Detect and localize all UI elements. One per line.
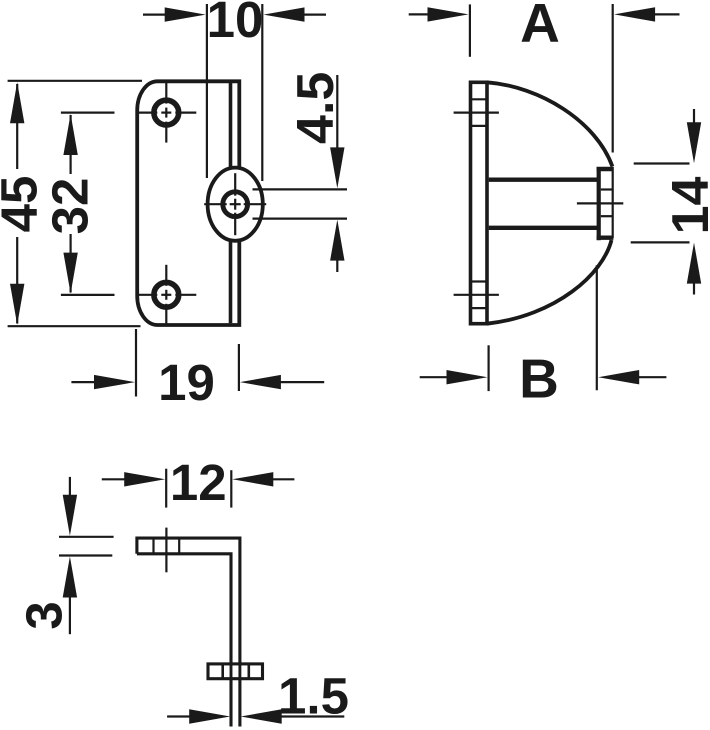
dim 3 line and arrows (69, 477, 71, 496)
dim 12 extension line left (165, 469, 167, 508)
L profile outer outline (137, 538, 240, 726)
dim 12 arrow left (102, 478, 126, 480)
svg-text:4.5: 4.5 (287, 72, 345, 144)
center hole ring (223, 192, 248, 217)
screw hole bottom ring (154, 282, 179, 307)
dim 4.5 line and arrows (336, 75, 338, 148)
side plate hole edge ticks (469, 98, 489, 100)
svg-text:14: 14 (662, 177, 710, 235)
center hole centerlines (204, 203, 227, 205)
dim 32 extension line top (61, 111, 115, 113)
dim 19 extension line left (135, 329, 137, 397)
screw hole top centerlines (136, 111, 157, 113)
dim B arrow right (598, 370, 639, 384)
boss channel top line (489, 177, 599, 181)
dim 3 extension line bottom (59, 554, 112, 556)
boss left edge (597, 167, 601, 240)
dim 32 extension line bottom (61, 294, 115, 296)
dim 45 extension line bottom (8, 325, 141, 327)
dim 10 arrow left (143, 14, 166, 16)
screw hole bottom centerlines (136, 294, 157, 296)
side hole centerline top (454, 111, 499, 113)
svg-text:12: 12 (170, 454, 227, 511)
svg-text:10: 10 (207, 0, 264, 48)
dim 10 extension line left (206, 4, 208, 178)
dim 14 extension line top (634, 162, 690, 164)
svg-text:A: A (520, 0, 560, 54)
L profile hole tick left (152, 537, 154, 555)
dim 19 arrow left (71, 381, 97, 383)
L profile hole centerline (165, 528, 167, 573)
boss tick top (601, 188, 613, 190)
dome top curve (487, 82, 612, 166)
dim A arrow right (614, 7, 655, 21)
foot tick 3 (leg line) (238, 663, 241, 680)
svg-text:32: 32 (42, 178, 99, 235)
dim 12 arrow right (232, 472, 273, 486)
dim 1.5 arrow right (241, 709, 282, 723)
front plate outline (137, 81, 239, 325)
dim 32 line and arrows (69, 115, 71, 174)
svg-text:B: B (519, 348, 559, 410)
foot tick 4 (248, 663, 251, 680)
svg-text:3: 3 (16, 601, 73, 629)
boss right edge (612, 167, 614, 238)
dim 19 extension line right (238, 344, 240, 391)
L profile hole tick right (178, 537, 180, 555)
foot tick 1 (221, 663, 224, 680)
dim 12 extension line right (230, 470, 232, 507)
dim 1.5 arrow left (167, 715, 190, 717)
dim 45 extension line top (8, 80, 142, 82)
dim 14 extension line bottom (631, 241, 690, 243)
dim 14 line and arrows (693, 109, 695, 124)
front plate folded edge line (229, 83, 233, 323)
dim 45 line and arrows (16, 84, 18, 169)
dim 10 extension line right (261, 4, 263, 181)
dim B arrow left (420, 376, 448, 378)
dim 4.5 extension line bottom (253, 218, 348, 220)
dim 3 extension line top (59, 536, 114, 538)
foot plate (208, 664, 263, 679)
boss bottom edge (597, 235, 614, 239)
screw hole top ring (154, 100, 179, 125)
side hole centerline bottom (454, 294, 499, 296)
dim A extension line left (469, 4, 471, 56)
svg-text:19: 19 (158, 354, 215, 411)
boss centerline (577, 202, 623, 204)
dim B extension line left (488, 345, 490, 391)
dim 10 arrow right (264, 7, 305, 21)
svg-text:1.5: 1.5 (278, 668, 349, 725)
foot tick 2 (leg line) (230, 663, 233, 680)
svg-text:45: 45 (0, 176, 47, 233)
dim B extension line right (596, 265, 598, 390)
dome bottom curve (487, 240, 612, 324)
dim 19 arrow right (240, 375, 281, 389)
boss top edge (597, 167, 614, 171)
dim A extension line right (612, 4, 614, 153)
dim A arrow left (409, 13, 429, 15)
side plate outline (471, 82, 488, 323)
dim 4.5 extension line top (253, 188, 348, 190)
center boss oval (208, 168, 263, 241)
L profile inner outline (137, 554, 231, 727)
boss tick bottom (601, 215, 613, 217)
boss channel bottom line (489, 226, 599, 230)
